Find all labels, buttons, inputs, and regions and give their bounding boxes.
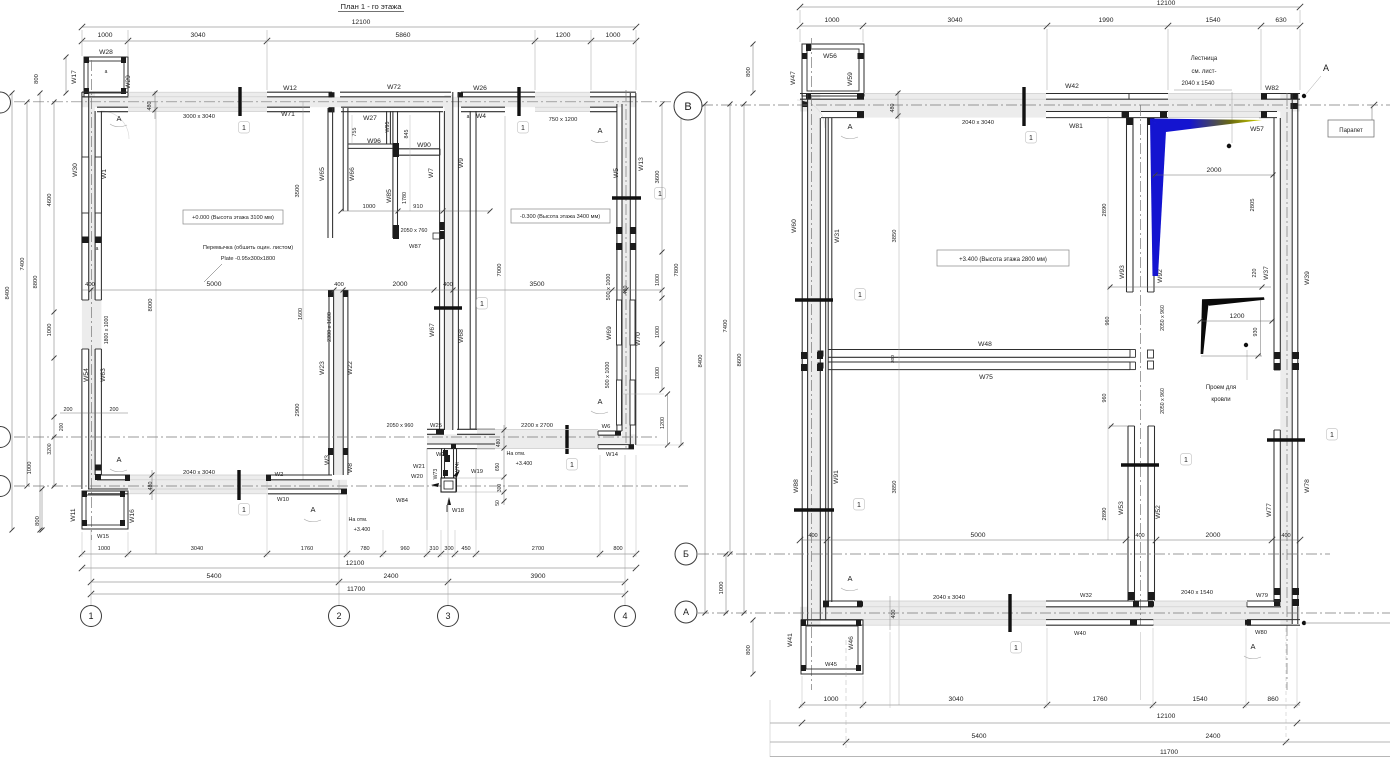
svg-text:500 x 1000: 500 x 1000	[606, 274, 612, 301]
svg-text:2400: 2400	[1206, 733, 1221, 740]
svg-text:W75: W75	[979, 374, 993, 381]
svg-text:1760: 1760	[1093, 696, 1108, 703]
svg-text:W53: W53	[1118, 501, 1125, 515]
svg-text:8400: 8400	[5, 287, 11, 300]
corner dot top right	[1302, 94, 1306, 98]
svg-text:2040 x 1540: 2040 x 1540	[1181, 81, 1215, 87]
svg-text:800: 800	[35, 516, 41, 526]
svg-text:2400: 2400	[384, 573, 399, 580]
svg-text:1: 1	[658, 191, 662, 198]
svg-text:W39: W39	[1304, 271, 1311, 285]
svg-text:Лестница: Лестница	[1191, 56, 1218, 62]
svg-text:2040 x 3040: 2040 x 3040	[933, 595, 965, 601]
svg-text:W13: W13	[638, 157, 645, 171]
porch W45 bottom	[801, 620, 863, 674]
interior dim line y290	[82, 289, 662, 291]
svg-text:750 x 1200: 750 x 1200	[549, 117, 578, 123]
porch dim 800 bottom	[752, 620, 754, 674]
svg-text:400: 400	[334, 282, 344, 288]
porch W15	[82, 491, 128, 529]
svg-text:1: 1	[570, 462, 574, 469]
right plan bottom dim rows	[800, 704, 1300, 706]
center bottom shaft cluster	[426, 448, 428, 530]
svg-text:12100: 12100	[346, 560, 365, 567]
svg-text:200: 200	[59, 423, 65, 432]
svg-text:8400: 8400	[698, 355, 704, 368]
svg-text:845: 845	[404, 130, 410, 139]
svg-text:W6: W6	[602, 424, 611, 430]
section marks top	[238, 87, 241, 116]
svg-text:W28: W28	[99, 49, 113, 56]
svg-text:5400: 5400	[207, 573, 222, 580]
grey band wall at grid B (lower right)	[427, 434, 636, 444]
stairwell centerline	[1140, 105, 1142, 625]
svg-text:480: 480	[496, 439, 502, 448]
svg-text:W70: W70	[635, 332, 642, 346]
svg-text:2050 x 960: 2050 x 960	[1160, 305, 1166, 331]
svg-text:450: 450	[461, 546, 470, 552]
svg-text:A: A	[847, 122, 852, 131]
faint opening lines left plan top wall	[128, 91, 267, 93]
svg-text:W22: W22	[347, 361, 354, 375]
svg-text:Перемычка (обшить оцин. листом: Перемычка (обшить оцин. листом)	[203, 245, 293, 251]
svg-text:W17: W17	[71, 70, 78, 84]
svg-text:800: 800	[746, 67, 752, 77]
svg-text:910: 910	[413, 204, 423, 210]
level text box -0.300	[511, 209, 610, 223]
svg-text:W67: W67	[429, 323, 436, 337]
svg-text:1000: 1000	[655, 274, 661, 286]
svg-text:1200: 1200	[1230, 313, 1245, 320]
svg-text:1000: 1000	[719, 582, 725, 595]
section marks stairwell	[1121, 463, 1159, 466]
svg-text:200: 200	[110, 407, 119, 413]
right plan dim row2	[800, 25, 1300, 27]
svg-text:W81: W81	[1069, 123, 1083, 130]
svg-text:1: 1	[1014, 645, 1018, 652]
left wall centerline	[811, 38, 813, 690]
svg-text:2200 x 2700: 2200 x 2700	[521, 423, 553, 429]
svg-text:W69: W69	[606, 326, 613, 340]
svg-text:50: 50	[495, 500, 501, 506]
svg-text:W8: W8	[347, 463, 354, 473]
top outer wall (grid V) line segments	[82, 91, 128, 93]
svg-text:2900: 2900	[295, 404, 301, 417]
svg-text:a: a	[105, 69, 108, 75]
svg-text:480: 480	[147, 102, 153, 111]
grid circle V between plans	[674, 92, 702, 120]
svg-text:1000: 1000	[655, 326, 661, 338]
section mark bottom right plan	[1008, 594, 1011, 632]
svg-text:W57: W57	[1250, 126, 1264, 133]
grid B centerline right plan	[698, 553, 1330, 555]
svg-text:1000: 1000	[606, 32, 621, 39]
svg-text:Б: Б	[683, 549, 689, 559]
svg-text:А: А	[683, 607, 689, 617]
svg-text:A: A	[1323, 63, 1329, 73]
svg-text:5000: 5000	[207, 281, 222, 288]
svg-text:960: 960	[400, 546, 409, 552]
svg-text:+0.000 (Высота этажа 3100 мм): +0.000 (Высота этажа 3100 мм)	[192, 215, 274, 221]
svg-text:W96: W96	[367, 138, 381, 145]
bathroom dim line 1000/910	[341, 210, 490, 212]
svg-text:W93: W93	[1119, 265, 1126, 279]
svg-text:W47: W47	[790, 71, 797, 85]
svg-text:1540: 1540	[1206, 17, 1221, 24]
svg-text:W52: W52	[1155, 505, 1162, 519]
svg-text:630: 630	[1275, 17, 1286, 24]
svg-text:W54: W54	[83, 368, 90, 382]
svg-text:1200: 1200	[660, 417, 666, 429]
wall at grid B segments W25/W24	[427, 428, 444, 430]
svg-text:A: A	[597, 126, 602, 135]
tick line y287	[1108, 286, 1271, 288]
svg-text:1000: 1000	[825, 17, 840, 24]
grid V centerline left plan	[0, 101, 673, 103]
svg-text:300: 300	[890, 355, 896, 363]
svg-text:1000: 1000	[47, 324, 53, 337]
svg-text:W9: W9	[458, 158, 465, 168]
svg-text:12100: 12100	[352, 19, 371, 26]
level text box +0.000	[183, 210, 283, 224]
svg-text:400: 400	[1135, 533, 1144, 539]
svg-text:W82: W82	[1265, 85, 1279, 92]
svg-text:W7: W7	[428, 168, 435, 178]
dim 1000 between B A	[725, 554, 727, 613]
svg-text:W23: W23	[319, 361, 326, 375]
svg-text:1760: 1760	[301, 546, 313, 552]
grey band bottom wall A	[88, 480, 347, 489]
svg-text:200: 200	[64, 407, 73, 413]
right wall centerline	[1286, 93, 1288, 690]
faint opening lines bottom wall	[130, 474, 266, 476]
svg-text:3500: 3500	[530, 281, 545, 288]
svg-text:W73: W73	[433, 469, 439, 480]
svg-text:1000: 1000	[98, 32, 113, 39]
left plan top dim line 12100	[82, 26, 636, 28]
svg-text:1: 1	[1029, 135, 1033, 142]
svg-text:1780: 1780	[402, 192, 408, 204]
svg-text:8600: 8600	[737, 354, 743, 367]
grid A centerline right plan	[698, 612, 1390, 614]
svg-text:W68: W68	[458, 329, 465, 343]
left plan left-side dim lines	[11, 93, 13, 530]
svg-text:2000: 2000	[393, 281, 408, 288]
bottom wall grid A segments	[97, 474, 130, 476]
svg-text:3: 3	[445, 611, 450, 621]
svg-text:W12: W12	[283, 85, 297, 92]
right wall windows	[616, 227, 622, 234]
svg-text:W56: W56	[823, 53, 837, 60]
svg-text:a: a	[96, 246, 99, 252]
svg-text:-0.300 (Высота этажа 3400 мм): -0.300 (Высота этажа 3400 мм)	[520, 214, 600, 220]
svg-text:780: 780	[360, 546, 369, 552]
svg-text:5860: 5860	[396, 32, 411, 39]
dim 480 top right plan	[897, 91, 899, 119]
svg-text:W72: W72	[387, 84, 401, 91]
grey band left wall	[89, 92, 95, 489]
svg-text:1000: 1000	[655, 367, 661, 379]
central wall lower black squares	[440, 222, 445, 230]
svg-text:W5: W5	[613, 168, 620, 178]
svg-text:W63: W63	[100, 368, 107, 382]
grey bands right plan walls	[800, 99, 1300, 111]
svg-text:a: a	[467, 114, 470, 120]
svg-text:W10: W10	[277, 497, 289, 503]
svg-text:1000: 1000	[363, 204, 376, 210]
svg-text:800: 800	[34, 74, 40, 84]
svg-text:A: A	[116, 114, 121, 123]
wall at grid B right part W6/W14	[598, 430, 621, 432]
left wall windows	[82, 157, 89, 213]
vertical helper line x505 7000	[504, 116, 506, 430]
tick line y426	[1109, 425, 1128, 427]
svg-text:960: 960	[1102, 394, 1108, 403]
svg-text:W18: W18	[452, 508, 464, 514]
svg-text:2300 x 1600: 2300 x 1600	[327, 312, 333, 342]
line under flag	[1201, 355, 1262, 357]
section mark near col3	[434, 306, 462, 309]
section mark top right plan	[1022, 87, 1025, 126]
extension lines bottom right plan	[1046, 628, 1048, 708]
svg-text:2040 x 3040: 2040 x 3040	[962, 120, 994, 126]
stair side stubs near W48	[1148, 350, 1154, 358]
wall W9 vertical	[469, 111, 471, 429]
svg-text:1: 1	[242, 507, 246, 514]
svg-text:3000 x 3040: 3000 x 3040	[183, 114, 215, 120]
porch W56 box	[802, 44, 864, 96]
svg-text:1: 1	[857, 502, 861, 509]
svg-text:W77: W77	[1266, 503, 1273, 517]
svg-text:W3: W3	[324, 455, 331, 465]
svg-text:2890: 2890	[1102, 508, 1108, 521]
svg-text:W4: W4	[476, 113, 486, 120]
A label leader tails	[110, 124, 127, 127]
svg-text:500 x 1000: 500 x 1000	[605, 362, 611, 389]
svg-text:400: 400	[443, 282, 453, 288]
svg-text:1000: 1000	[98, 546, 110, 552]
left wall window squares	[801, 352, 807, 359]
svg-text:2000: 2000	[1206, 532, 1221, 539]
helper line x899 3850	[898, 105, 900, 705]
section mark bottom wall	[237, 470, 240, 500]
svg-text:7000: 7000	[497, 264, 503, 277]
svg-text:400: 400	[1281, 533, 1290, 539]
svg-text:W37: W37	[1263, 266, 1270, 280]
black roof-opening flag	[1202, 297, 1265, 306]
svg-text:5000: 5000	[971, 532, 986, 539]
svg-text:2000: 2000	[1207, 167, 1222, 174]
svg-text:4600: 4600	[47, 194, 53, 207]
left outer wall verticals	[81, 92, 83, 300]
right wall centerline	[625, 90, 627, 448]
svg-text:A: A	[116, 455, 121, 464]
dim row at grid B right plan y540	[800, 539, 1300, 541]
svg-text:W11: W11	[70, 508, 77, 522]
svg-text:3040: 3040	[191, 546, 203, 552]
grid col1 centerline	[91, 60, 93, 540]
right plan top dim 12100	[800, 6, 1300, 8]
svg-text:12100: 12100	[1157, 0, 1176, 7]
svg-text:2050 x 960: 2050 x 960	[1160, 388, 1166, 414]
svg-text:W30: W30	[72, 163, 79, 177]
right plan left-side long dims	[704, 104, 706, 613]
svg-text:2700: 2700	[532, 546, 544, 552]
svg-text:A: A	[847, 574, 852, 583]
svg-text:7400: 7400	[723, 320, 729, 333]
svg-text:W78: W78	[1304, 479, 1311, 493]
grid B(Б) centerline left plan	[0, 436, 660, 438]
svg-text:W26: W26	[473, 85, 487, 92]
small dim 480 top	[154, 91, 156, 119]
svg-text:+3.400: +3.400	[516, 461, 533, 467]
level box +3.400	[937, 250, 1069, 266]
col2 interior wall	[334, 290, 344, 475]
svg-text:220: 220	[1252, 269, 1258, 278]
svg-text:800: 800	[746, 645, 752, 655]
svg-text:A: A	[597, 397, 602, 406]
svg-text:2050 x 960: 2050 x 960	[387, 423, 414, 429]
left grid partial circles	[0, 92, 11, 113]
svg-text:480: 480	[148, 482, 154, 491]
svg-text:650: 650	[495, 463, 501, 472]
grey band right wall	[622, 104, 630, 445]
svg-text:400: 400	[891, 610, 897, 619]
section mark 2200x2700	[565, 425, 568, 454]
svg-text:400: 400	[808, 533, 817, 539]
right wall windows	[1274, 352, 1280, 359]
svg-text:2040 x 1540: 2040 x 1540	[1181, 590, 1213, 596]
faint opening lines right plan top wall	[864, 93, 1046, 95]
svg-text:W1: W1	[101, 169, 108, 179]
svg-text:3040: 3040	[948, 17, 963, 24]
stairwell walls lower W53/W52	[1127, 426, 1129, 601]
svg-text:1990: 1990	[1099, 17, 1114, 24]
section mark right wall	[612, 196, 641, 199]
svg-text:7800: 7800	[674, 264, 680, 277]
W79 wall vertical	[1246, 602, 1248, 607]
walls W48/W75 double horizontal	[828, 349, 1130, 351]
svg-text:2805: 2805	[1250, 199, 1256, 212]
svg-text:3500: 3500	[295, 185, 301, 198]
extension lines down to grid circles	[90, 530, 92, 605]
grid V centerline right plan	[702, 104, 1390, 106]
grid circles B A right plan	[675, 543, 697, 565]
faint opening lines right plan bottom wall	[862, 600, 1046, 602]
right plan bottom wall upper lines	[823, 600, 862, 602]
small dims cluster right of shaft	[503, 425, 505, 505]
interior partition W31/W91	[827, 118, 829, 602]
svg-text:930: 930	[1253, 328, 1259, 337]
svg-text:W20: W20	[411, 474, 423, 480]
dim 480 bottom	[151, 470, 153, 500]
svg-text:400: 400	[85, 282, 95, 288]
svg-text:W27: W27	[363, 115, 377, 122]
dim 2000 stairs	[1153, 174, 1275, 176]
left outer wall right plan	[801, 93, 803, 626]
svg-text:A: A	[310, 505, 315, 514]
svg-text:W85: W85	[386, 189, 393, 203]
svg-text:W60: W60	[791, 219, 798, 233]
svg-text:W41: W41	[787, 633, 794, 647]
svg-text:860: 860	[1267, 696, 1278, 703]
black squares at wall breaks top	[329, 92, 335, 97]
svg-text:План 1 - го этажа: План 1 - го этажа	[341, 2, 403, 11]
grey band top wall	[82, 97, 636, 107]
svg-text:W65: W65	[319, 167, 326, 181]
svg-text:Проем для: Проем для	[1206, 385, 1236, 391]
grid A centerline left plan	[0, 485, 688, 487]
svg-text:W46: W46	[848, 636, 855, 650]
svg-text:1200: 1200	[556, 32, 571, 39]
svg-text:W91: W91	[833, 470, 840, 484]
svg-text:7400: 7400	[20, 258, 26, 271]
svg-text:W31: W31	[834, 229, 841, 243]
vertical helper line x303	[302, 102, 304, 480]
dim 1200	[1198, 320, 1274, 322]
svg-text:На отм.: На отм.	[507, 451, 526, 457]
corner blocks top right	[1291, 94, 1298, 100]
svg-text:1: 1	[88, 611, 93, 621]
svg-text:W29: W29	[125, 75, 132, 89]
svg-text:W88: W88	[793, 479, 800, 493]
section mark right wall	[1267, 438, 1305, 441]
svg-text:2050 x 760: 2050 x 760	[401, 228, 428, 234]
svg-text:800: 800	[613, 546, 622, 552]
svg-text:W25: W25	[430, 423, 442, 429]
svg-text:11700: 11700	[1160, 749, 1178, 756]
left wall section marks	[795, 298, 833, 301]
svg-text:1: 1	[480, 301, 484, 308]
svg-text:8000: 8000	[148, 299, 154, 312]
stairwell walls upper W93/W92	[1126, 118, 1128, 292]
porch W28 box	[84, 57, 128, 97]
svg-text:A: A	[1250, 642, 1255, 651]
svg-text:3850: 3850	[892, 481, 898, 494]
svg-text:1: 1	[521, 125, 525, 132]
grid circles 1 2 3 4	[81, 606, 102, 627]
right plan top wall lines	[800, 93, 864, 95]
svg-text:W15: W15	[97, 534, 109, 540]
svg-text:W40: W40	[1074, 631, 1086, 637]
parapet label box	[1328, 120, 1374, 137]
svg-text:1540: 1540	[1193, 696, 1208, 703]
svg-text:В: В	[684, 101, 691, 113]
svg-text:W87: W87	[409, 244, 421, 250]
svg-text:кровли: кровли	[1211, 397, 1230, 403]
svg-text:W16: W16	[129, 509, 136, 523]
svg-text:3600: 3600	[655, 171, 661, 184]
left plan bottom dim rows	[82, 553, 636, 555]
svg-text:W90: W90	[417, 142, 431, 149]
svg-text:W45: W45	[825, 662, 837, 668]
wall W77 lower right	[1273, 430, 1275, 602]
svg-text:1800 x 1000: 1800 x 1000	[104, 316, 110, 345]
left plan right-side dims	[661, 104, 663, 390]
svg-text:1000: 1000	[27, 462, 33, 475]
svg-text:+3.400: +3.400	[354, 527, 371, 533]
svg-text:W2: W2	[275, 472, 284, 478]
svg-text:W66: W66	[349, 167, 356, 181]
svg-text:1: 1	[858, 292, 862, 299]
svg-text:11700: 11700	[347, 586, 365, 593]
svg-text:3900: 3900	[531, 573, 546, 580]
svg-text:310: 310	[429, 546, 438, 552]
svg-text:На отм.: На отм.	[349, 517, 368, 523]
svg-text:W59: W59	[847, 72, 854, 86]
svg-text:W84: W84	[396, 498, 409, 504]
svg-text:3040: 3040	[949, 696, 964, 703]
